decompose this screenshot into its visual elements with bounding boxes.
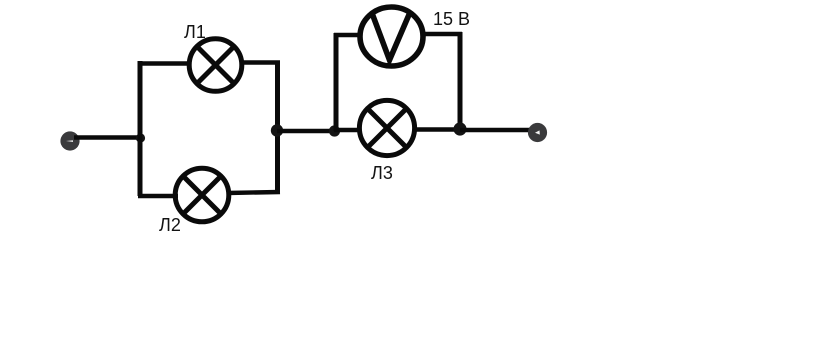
left terminal — [60, 131, 79, 150]
wire left vertical of parallel pair — [138, 61, 143, 196]
lamp Л1 — [189, 39, 242, 92]
wire left vertical of voltmeter loop — [334, 33, 339, 131]
wire top rail to lamp L1 — [138, 61, 191, 65]
voltmeter U1 — [360, 7, 423, 66]
lamp Л3 — [359, 100, 414, 155]
svg-text:15 В: 15 В — [433, 9, 470, 29]
svg-text:Л1: Л1 — [184, 22, 206, 42]
node A junction dot — [136, 133, 145, 142]
lamp Л2 — [175, 168, 229, 222]
wire right vertical of voltmeter loop — [458, 32, 463, 129]
right terminal — [528, 123, 547, 142]
wire lamp L1 to right vertical — [240, 60, 280, 64]
svg-text:Л3: Л3 — [371, 163, 393, 183]
wire top rail to voltmeter — [334, 33, 362, 38]
wire voltmeter to right vertical — [421, 32, 462, 37]
node C junction dot — [329, 125, 340, 136]
svg-text:Л2: Л2 — [159, 215, 181, 235]
wire lamp L2 to right vertical — [227, 192, 280, 193]
wire bottom rail to lamp L2 — [138, 194, 178, 198]
node B junction dot — [271, 124, 283, 136]
wire from left terminal to node A — [74, 135, 141, 139]
wire node B to node C — [277, 129, 336, 133]
wire node D to right terminal — [460, 128, 531, 132]
wire node C to lamp L3 — [334, 128, 361, 132]
wire right vertical of parallel pair — [275, 61, 280, 194]
wire lamp L3 to node D — [413, 127, 460, 131]
node D junction dot — [453, 122, 466, 135]
